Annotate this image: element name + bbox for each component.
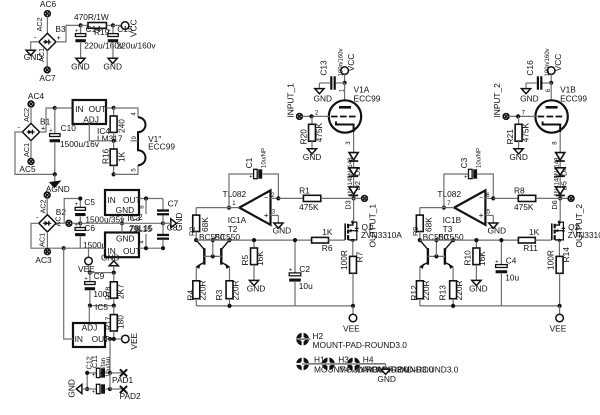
wire D2-D3 — [353, 177, 355, 187]
mount pad H1 — [296, 355, 409, 375]
wire AC4 to bridge B1 (net AC2) — [22, 107, 31, 123]
svg-text:R20: R20 — [299, 129, 309, 145]
ground GND (mount pads) — [377, 364, 396, 384]
svg-text:+: + — [75, 222, 79, 228]
ground GND (up arrow at 79L15) — [101, 253, 120, 273]
svg-text:R21: R21 — [505, 129, 515, 145]
bridge rectifier B1 — [18, 116, 51, 140]
wire IN from negative rail — [64, 248, 73, 339]
svg-text:OUT: OUT — [89, 104, 107, 114]
svg-text:+: + — [495, 259, 499, 265]
node VEE drop — [351, 304, 355, 308]
svg-text:220R: 220R — [421, 280, 431, 300]
svg-text:R8: R8 — [514, 185, 525, 195]
svg-text:10u: 10u — [505, 273, 519, 283]
MOSFET Q2 ZVN3310 — [552, 221, 600, 242]
wire B1 plus up to IN rail — [40, 108, 55, 132]
resistor R5 16K — [240, 238, 265, 280]
capacitor C9 100u — [84, 271, 112, 305]
ground GND (C13) — [314, 89, 333, 104]
pin1 output node — [227, 201, 239, 210]
node output — [352, 196, 356, 200]
svg-text:2K7: 2K7 — [115, 284, 125, 299]
svg-text:PAD2: PAD2 — [120, 391, 142, 401]
wire negative rail to IC3 IN — [64, 247, 105, 249]
svg-text:VEE: VEE — [129, 332, 139, 349]
wire B2 to AC3 (net AC1) — [38, 232, 48, 249]
node C11 right — [108, 371, 112, 375]
wire drain — [353, 198, 355, 222]
capacitor C6 1500u/35v — [75, 222, 123, 250]
node output — [558, 196, 562, 200]
svg-text:VEE: VEE — [343, 324, 360, 334]
pad INPUT (INPUT_1) — [286, 83, 303, 119]
svg-text:C4: C4 — [506, 256, 517, 266]
svg-text:C3: C3 — [459, 157, 469, 168]
ground GND (R21) — [509, 149, 528, 162]
node VEE/C9/GND-wire — [88, 271, 92, 275]
resistor R12 220R — [409, 280, 431, 305]
svg-text:16K: 16K — [255, 251, 265, 266]
wire IC4 ADJ down — [89, 124, 113, 141]
svg-text:10u: 10u — [299, 281, 313, 291]
wire D2-D3 — [559, 177, 561, 187]
svg-text:100n/160v: 100n/160v — [545, 48, 551, 76]
svg-text:ECC99: ECC99 — [560, 93, 587, 103]
svg-text:AC5: AC5 — [19, 164, 36, 174]
svg-text:GND: GND — [520, 93, 539, 103]
ground GND (pin3) — [488, 223, 507, 235]
svg-text:+: + — [92, 389, 96, 395]
svg-text:3: 3 — [346, 141, 352, 145]
ground GND (C16) — [520, 89, 539, 104]
terminal VCC (raw HT out) — [121, 19, 138, 37]
svg-text:GND: GND — [469, 284, 488, 294]
pin2 (-) input — [485, 193, 495, 200]
mount pad H4 — [347, 355, 459, 375]
wire IC4 OUT to 240 node — [106, 107, 114, 109]
svg-text:C16: C16 — [525, 60, 535, 76]
pad OUTPUT (OUTPUT_2) — [560, 196, 584, 248]
node VEE drop — [558, 304, 562, 308]
wire IC2 GND pin — [120, 215, 124, 225]
svg-text:100R: 100R — [546, 250, 556, 270]
resistor R1 475K — [278, 185, 353, 212]
ground GND (R20) — [303, 149, 322, 162]
svg-text:AC3: AC3 — [35, 255, 52, 265]
wire B2 plus right and up to IN rail — [56, 199, 80, 224]
svg-text:7: 7 — [522, 110, 526, 116]
svg-text:H4: H4 — [363, 355, 374, 365]
svg-text:AC2: AC2 — [38, 199, 47, 213]
svg-text:3: 3 — [272, 209, 276, 215]
node C15 junction — [111, 23, 115, 27]
bridge rectifier B3 — [34, 24, 66, 51]
svg-text:R7: R7 — [354, 251, 364, 262]
svg-text:IN: IN — [107, 195, 115, 205]
svg-text:4: 4 — [132, 112, 138, 116]
pin1 output node — [442, 201, 454, 210]
wire to output node — [353, 196, 355, 198]
wire emitter rail (VEE) — [420, 304, 560, 308]
svg-text:INPUT_2: INPUT_2 — [492, 83, 502, 118]
node ADJ junction — [112, 139, 116, 143]
svg-text:MOUNT-PAD-ROUND3.0: MOUNT-PAD-ROUND3.0 — [313, 340, 408, 350]
svg-text:1K: 1K — [529, 227, 540, 237]
svg-text:AC1: AC1 — [22, 143, 31, 157]
svg-text:C15: C15 — [117, 24, 133, 34]
capacitor C12 10u/tan — [87, 358, 110, 395]
pad AC7 — [39, 67, 56, 83]
svg-text:100n/160v: 100n/160v — [338, 48, 344, 76]
svg-text:180: 180 — [115, 315, 125, 329]
ground GND (mid rail, rotated) — [163, 212, 184, 231]
svg-text:VCC: VCC — [553, 54, 563, 72]
node rail left (R9 bottom) — [418, 238, 422, 242]
svg-text:+: + — [75, 28, 79, 34]
resistor R9 68K — [411, 208, 434, 241]
wire mount pads row (over pads) — [302, 363, 386, 365]
wire IC2 OUT (+15V) — [139, 196, 163, 200]
node IC5 feed — [62, 246, 66, 250]
node right collector — [451, 238, 455, 242]
svg-text:GND: GND — [509, 152, 528, 162]
resistor R21 475K — [505, 116, 530, 148]
svg-text:VEE: VEE — [550, 324, 567, 334]
svg-text:C5: C5 — [84, 197, 95, 207]
resistor R2 68K — [187, 208, 210, 241]
svg-text:R5: R5 — [240, 254, 250, 265]
op-amp IC1B TL082 — [437, 189, 485, 234]
svg-text:MOUNT-PAD-ROUND3.0: MOUNT-PAD-ROUND3.0 — [364, 365, 459, 375]
wire D1-D2 — [559, 162, 561, 168]
wire ADJ node (IC5) — [88, 302, 116, 312]
resistor R11 1K — [518, 227, 551, 253]
pin 8 stub (op-amp V+) — [140, 199, 146, 215]
wire IC5 OUT rail — [105, 337, 121, 341]
capacitor C16 100n/160v — [525, 48, 551, 89]
svg-text:IC3: IC3 — [127, 213, 140, 223]
svg-text:475K: 475K — [314, 122, 324, 142]
wire grid — [302, 110, 329, 118]
svg-text:D3: D3 — [343, 200, 352, 209]
svg-text:+: + — [249, 174, 253, 180]
pad (AC in, block 3 top) — [38, 192, 50, 213]
transistor T2b BC550 (right) — [220, 240, 230, 281]
wire drive rail — [420, 239, 519, 241]
terminal VCC (V1A) — [341, 54, 356, 75]
svg-text:IN: IN — [75, 334, 83, 344]
ground GND (pin3) — [273, 223, 292, 235]
svg-text:R2: R2 — [187, 227, 196, 236]
terminal VCC (V1B) — [547, 54, 562, 75]
svg-text:+: + — [107, 28, 111, 34]
diode D5 1N4148 — [554, 168, 568, 197]
wire center tap to C5/C6 midpoint — [72, 222, 80, 224]
svg-text:-: - — [34, 33, 37, 42]
wire C1 to pin2 node — [262, 174, 278, 198]
capacitor C3 10u/NP — [459, 148, 483, 180]
svg-text:IN: IN — [75, 104, 83, 114]
triode V1A ECC99 — [329, 85, 381, 133]
regulator IC2 78L15 — [105, 190, 141, 215]
svg-text:220u/160v: 220u/160v — [117, 41, 157, 51]
svg-text:GND: GND — [377, 374, 396, 384]
wire emitter rail (VEE) — [196, 304, 353, 308]
capacitor C4 10u — [495, 238, 519, 306]
wire B1 to AC5 (net AC1) — [22, 141, 31, 159]
svg-text:AC: AC — [54, 216, 63, 226]
transistor T2a BC550 (left) — [196, 240, 206, 281]
node anode/C13 — [343, 81, 347, 85]
diode D1 1N4148 — [348, 153, 362, 179]
svg-text:AC7: AC7 — [39, 73, 56, 83]
resistor R17 180 — [103, 306, 125, 339]
wire B3 minus to GND — [31, 42, 39, 50]
node anode/C13 — [549, 81, 553, 85]
transistor T3a BC550 (left) — [419, 240, 429, 281]
svg-text:5: 5 — [132, 168, 138, 172]
resistor R4 220R — [185, 280, 207, 305]
wire to output node — [559, 196, 561, 198]
svg-text:+: + — [57, 33, 61, 42]
node C5/C6 midpoint — [78, 221, 82, 225]
svg-text:D6: D6 — [550, 200, 559, 209]
svg-text:GND: GND — [71, 62, 90, 72]
svg-text:AC4: AC4 — [28, 91, 45, 101]
svg-text:+: + — [464, 174, 468, 180]
svg-text:C14: C14 — [86, 24, 102, 34]
svg-text:2: 2 — [315, 110, 319, 116]
svg-text:OUT: OUT — [123, 246, 141, 256]
wire C11/C12 left column — [85, 371, 89, 391]
wire cathode down — [553, 132, 561, 153]
svg-text:+: + — [84, 276, 88, 282]
resistor R16 1K — [100, 141, 126, 175]
svg-text:8: 8 — [140, 205, 146, 209]
svg-text:R4: R4 — [185, 290, 195, 301]
svg-text:R13: R13 — [438, 285, 448, 301]
resistor R3 220R — [214, 280, 240, 305]
svg-text:+: + — [49, 128, 53, 134]
svg-text:R9: R9 — [411, 227, 420, 236]
node 240 top — [112, 106, 116, 110]
svg-text:220R: 220R — [230, 280, 240, 300]
wire pad to bridge B2 — [46, 198, 48, 215]
svg-text:220R: 220R — [454, 280, 464, 300]
svg-text:AC1: AC1 — [37, 48, 46, 62]
svg-text:AC1: AC1 — [38, 233, 47, 247]
resistor R20 475K — [299, 116, 324, 148]
ground GND (left arrow) — [67, 379, 88, 398]
pin3 (+) input to GND — [485, 209, 493, 222]
resistor R18 2K7 — [103, 273, 125, 306]
capacitor C2 10u — [289, 238, 313, 306]
bridge rectifier B2 — [36, 207, 66, 232]
svg-text:1K: 1K — [117, 151, 127, 162]
svg-text:ZVN3310A: ZVN3310A — [361, 230, 402, 240]
svg-text:AC2: AC2 — [35, 17, 44, 31]
pin 4 stub (op-amp V-) — [140, 234, 146, 248]
mount pad H3 — [322, 355, 434, 375]
svg-text:1K: 1K — [322, 227, 333, 237]
transistor T3b BC550 (right) — [444, 240, 454, 281]
ground GND (R10) — [469, 280, 488, 293]
svg-text:IC5: IC5 — [95, 302, 108, 312]
wire C1 to pin2 node — [477, 174, 493, 198]
svg-text:GND: GND — [101, 253, 120, 263]
svg-text:VCC: VCC — [346, 54, 356, 72]
diode D2 1N4148 — [348, 168, 362, 197]
svg-text:GND: GND — [303, 152, 322, 162]
resistor 240 (LM317 set) — [110, 108, 126, 141]
capacitor C14 220u/160v — [75, 24, 124, 59]
svg-text:+: + — [264, 210, 269, 220]
pin3 (+) input to GND — [271, 209, 279, 222]
svg-text:R6: R6 — [322, 243, 333, 253]
svg-text:R3: R3 — [214, 289, 224, 300]
svg-text:470R/1W: 470R/1W — [74, 12, 109, 22]
svg-text:R11: R11 — [523, 243, 538, 253]
terminal VEE (raw negative) — [78, 248, 95, 274]
svg-text:LM317: LM317 — [97, 133, 123, 143]
svg-text:TL082: TL082 — [223, 189, 247, 199]
wire PAD2 — [110, 388, 124, 390]
svg-text:+: + — [92, 373, 96, 379]
svg-text:10u/NP: 10u/NP — [262, 148, 268, 168]
wire B3 plus to top rail — [56, 25, 81, 42]
wire VCC to anode node — [550, 75, 552, 83]
capacitor C5 1500u/35v — [75, 196, 126, 224]
wire R19 to C15 node — [106, 24, 113, 26]
svg-text:GND: GND — [488, 225, 507, 235]
wire grid — [509, 110, 536, 118]
diode D6 — [550, 187, 565, 210]
svg-text:+: + — [41, 123, 45, 132]
svg-text:475K: 475K — [514, 202, 534, 212]
svg-text:GND: GND — [103, 62, 122, 72]
svg-text:C6: C6 — [84, 223, 95, 233]
node rail left (R2 bottom) — [194, 238, 198, 242]
svg-text:ECC99: ECC99 — [148, 142, 175, 152]
svg-text:OUT: OUT — [123, 195, 141, 205]
resistor R7 100R — [339, 250, 364, 306]
resistor R8 475K — [493, 185, 560, 212]
svg-text:GND: GND — [247, 284, 266, 294]
wire IC3 GND pin — [121, 223, 123, 232]
svg-text:8: 8 — [553, 141, 559, 145]
MOSFET Q1 ZVN3310A — [345, 221, 402, 242]
pad INPUT (INPUT_2) — [492, 83, 509, 119]
svg-text:INPUT_1: INPUT_1 — [286, 83, 296, 118]
svg-text:475K: 475K — [299, 202, 319, 212]
wire D1-D2 — [353, 162, 355, 168]
wire GND rail mid — [105, 221, 165, 225]
wire cathode down — [346, 132, 354, 153]
svg-text:GND: GND — [273, 225, 292, 235]
regulator IC4 LM317 — [73, 100, 123, 143]
svg-text:AC2: AC2 — [22, 108, 31, 122]
svg-text:475K: 475K — [521, 122, 531, 142]
diode D3 — [343, 187, 358, 210]
wire VEE column down to C11/C12 — [109, 339, 111, 373]
svg-text:R18: R18 — [103, 287, 112, 300]
op-amp IC1A TL082 — [223, 189, 271, 234]
svg-text:10u/NP: 10u/NP — [477, 148, 483, 168]
svg-text:R10: R10 — [462, 250, 472, 266]
wire IC5 ADJ pin up — [88, 306, 90, 323]
svg-text:4: 4 — [140, 240, 146, 244]
label IC2/IC3 78L15/79L15 — [127, 212, 153, 234]
resistor R19 470R/1W — [74, 12, 110, 37]
svg-text:AC6: AC6 — [40, 0, 57, 9]
node C12 right — [108, 373, 112, 391]
wire anode — [546, 83, 552, 101]
svg-text:+: + — [289, 268, 293, 274]
svg-text:16K: 16K — [477, 251, 487, 266]
svg-text:7: 7 — [447, 201, 451, 207]
wire VCC to anode node — [344, 75, 346, 83]
svg-text:R17: R17 — [103, 317, 112, 330]
svg-text:C9: C9 — [94, 271, 105, 281]
wire mount pads row — [302, 363, 386, 365]
svg-text:C1: C1 — [244, 157, 254, 168]
regulator IC3 79L15 — [105, 233, 141, 258]
svg-text:68K: 68K — [424, 217, 434, 232]
wire B2 minus to negative rail — [31, 223, 64, 248]
pad AC3 — [35, 249, 52, 265]
svg-text:R16: R16 — [100, 148, 110, 164]
resistor R14 100R — [546, 247, 571, 306]
ground GND (C15) — [103, 58, 122, 71]
ground GND (B3 minus) — [24, 50, 43, 62]
svg-text:+: + — [75, 202, 79, 208]
svg-text:1: 1 — [232, 201, 236, 207]
svg-text:GND: GND — [67, 379, 77, 398]
svg-text:ZVN3310: ZVN3310 — [568, 230, 600, 240]
svg-text:68K: 68K — [200, 217, 210, 232]
wire PAD1 — [110, 372, 124, 374]
wire pin1 to C1 and 68K — [420, 174, 469, 208]
wire anode — [339, 83, 345, 101]
wire midpoint to GND rail — [80, 222, 105, 224]
svg-text:ECC99: ECC99 — [354, 93, 381, 103]
node C14/rail junction — [79, 23, 83, 27]
capacitor C7 — [157, 199, 179, 224]
regulator IC5 LM337 — [73, 322, 109, 347]
wire B3 to AC7 (net AC1) — [37, 48, 47, 67]
ground AGND — [46, 174, 70, 194]
capacitor C13 100n/160v — [318, 48, 344, 89]
svg-text:TL082: TL082 — [437, 189, 461, 199]
ground GND (R5) — [247, 280, 266, 293]
wire bases — [204, 238, 221, 259]
wire drive rail — [196, 239, 311, 241]
pad PAD2 — [120, 386, 142, 401]
wire bases — [428, 238, 445, 259]
svg-text:C12: C12 — [84, 356, 93, 369]
svg-text:GND: GND — [314, 93, 333, 103]
wire drain — [559, 198, 561, 222]
wire IC3 OUT (-15V) — [139, 246, 165, 250]
node right collector — [227, 238, 231, 242]
labels BC550 BC550 — [199, 232, 240, 242]
heater V1" ECC99 (pins 4,9,5) — [130, 117, 175, 165]
svg-text:R14: R14 — [561, 247, 571, 263]
diode D4 1N4148 — [554, 153, 568, 179]
wire AC6 to bridge B3 (net AC2) — [35, 17, 48, 34]
node C10 top — [53, 106, 57, 110]
